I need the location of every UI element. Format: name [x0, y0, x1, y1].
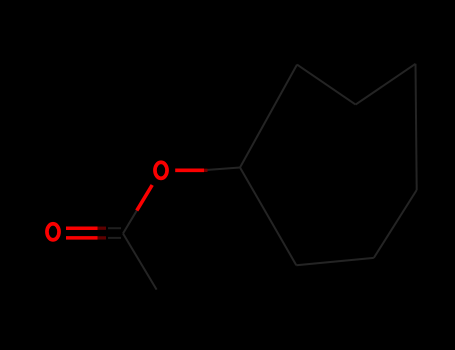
wire: bond O1-C1 red fade tip — [204, 169, 208, 172]
wire: ring edge C3-C4 — [356, 64, 416, 105]
wire: C8=O2 lower black tip — [108, 237, 121, 239]
wire: bond O1-C8 black half — [123, 210, 137, 234]
node O2: carbonyl oxygen label (red O) — [47, 224, 59, 240]
wire: bond O1-C1 black half — [206, 168, 240, 171]
wire: ring edge C7-C1 — [240, 168, 296, 266]
wire: ring edge C1-C2 — [240, 65, 297, 168]
wire: C8=O2 lower red line — [66, 236, 98, 240]
wire: ring edge C2-C3 — [297, 65, 356, 105]
wire: ring edge C4-C5 vertical — [416, 64, 417, 190]
wire: ring edge C6-C7 — [296, 258, 374, 265]
wire: C8=O2 upper red line — [66, 226, 98, 230]
node O1: ester oxygen label (red O) — [155, 162, 167, 178]
wire: C8=O2 lower red fade tip — [98, 236, 107, 239]
wire: ring edge C5-C6 — [374, 190, 417, 258]
wire: bond O1-C1 red half — [175, 169, 204, 173]
wire: bond O1-C8 red half — [137, 185, 152, 211]
wire: C8=O2 upper red fade tip — [98, 227, 107, 230]
wire: C8=O2 upper black tip — [108, 227, 121, 229]
wire: bond C8-C9 methyl — [123, 234, 157, 290]
